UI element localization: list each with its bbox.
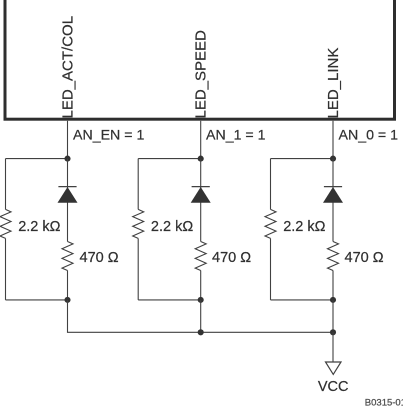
power symbol VCC (open triangle) [326,362,342,374]
wire: branch 2 left vertical upper [137,159,139,210]
svg-text:AN_EN = 1: AN_EN = 1 [73,128,144,144]
diode D2 triangle [191,187,211,203]
wire: branch 2 drop to bottom rail [200,300,202,332]
diode D1 cathode bar [58,186,76,188]
svg-text:470 Ω: 470 Ω [212,250,251,266]
wire: pin 3 stem from box to junction [332,121,334,159]
wire: branch 1 top horizontal [6,158,68,160]
IC box U1 (PHY, top edge cut off) [5,0,395,119]
svg-text:LED_LINK: LED_LINK [325,48,342,119]
diode D3 cathode bar [324,186,342,188]
diode D1 triangle [58,187,78,203]
resistor R4 470 Ohm [195,242,206,271]
node: branch 1 top junction [64,156,70,162]
node: branch 1 bottom junction [64,297,70,303]
wire: branch 3 main vertical through diode [332,159,334,242]
wire: branch 2 main vertical through diode [200,159,202,242]
svg-text:LED_ACT/COL: LED_ACT/COL [60,16,77,119]
wire: branch 2 top horizontal [138,158,201,160]
wire: branch 1 left vertical upper [5,159,7,210]
node: branch 3 top junction [330,156,336,162]
wire: branch 3 left vertical lower [270,238,272,300]
wire: branch 1 main vertical through diode [67,159,69,242]
wire: pin 1 stem from box to junction [67,121,69,159]
wire: branch 1 main vertical below R2 [67,271,69,300]
diode D2 cathode bar [192,186,210,188]
wire: branch 1 bottom horizontal [6,299,68,301]
svg-text:B0315-01: B0315-01 [365,398,403,407]
wire: branch 1 drop to bottom rail [68,300,201,332]
svg-text:2.2 kΩ: 2.2 kΩ [151,219,193,235]
node: branch 2 top junction [198,156,204,162]
node: rail junction under branch 2 [198,329,204,335]
wire: branch 3 main vertical below R6 [332,271,334,300]
wire: VCC stem [332,332,334,362]
diode D3 triangle [323,187,343,203]
wire: branch 3 left vertical upper [270,159,272,210]
svg-text:AN_1 = 1: AN_1 = 1 [206,128,266,144]
resistor R5 2.2 kOhm [265,209,276,238]
wire: branch 2 left vertical lower [137,238,139,300]
wire: branch 3 bottom horizontal [271,299,334,301]
resistor R6 470 Ohm [328,242,339,271]
wire: branch 2 bottom horizontal [138,299,201,301]
svg-text:VCC: VCC [318,379,349,395]
resistor R1 2.2 kOhm [0,209,11,238]
resistor R3 2.2 kOhm [133,209,144,238]
svg-text:470 Ω: 470 Ω [345,250,384,266]
svg-text:LED_SPEED: LED_SPEED [193,30,210,119]
svg-text:AN_0 = 1: AN_0 = 1 [339,128,399,144]
wire: branch 1 left vertical lower [5,238,7,300]
node: rail junction under branch 3 [330,329,336,335]
node: branch 3 bottom junction [330,297,336,303]
wire: branch 2 main vertical below R4 [200,271,202,300]
svg-text:2.2 kΩ: 2.2 kΩ [283,219,325,235]
wire: bottom rail to VCC stem [201,331,333,333]
resistor R2 470 Ohm [62,242,73,271]
node: branch 2 bottom junction [198,297,204,303]
svg-text:2.2 kΩ: 2.2 kΩ [18,219,60,235]
wire: branch 3 top horizontal [271,158,334,160]
wire: branch 3 drop to bottom rail [332,300,334,332]
wire: pin 2 stem from box to junction [200,121,202,159]
svg-text:470 Ω: 470 Ω [80,250,119,266]
